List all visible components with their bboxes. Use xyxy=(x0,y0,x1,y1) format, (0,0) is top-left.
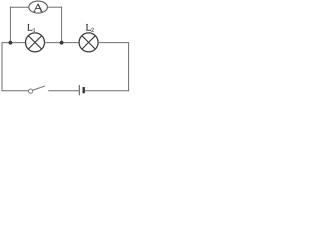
wire: ammeter branch right vertical xyxy=(61,7,63,43)
switch S pivot circle xyxy=(29,89,33,93)
node A junction dot xyxy=(9,41,13,45)
wire: left vertical xyxy=(1,42,3,91)
label L1 xyxy=(28,24,35,31)
wire: right vertical xyxy=(128,42,130,91)
node B junction dot xyxy=(60,41,64,45)
lamp L1 cross xyxy=(28,36,41,49)
label L2 xyxy=(86,24,94,31)
wire: ammeter branch top right horizontal xyxy=(47,6,62,8)
lamp L1 circle xyxy=(26,33,45,52)
wire: bottom right segment xyxy=(85,90,129,92)
lamp L2 cross xyxy=(82,36,95,49)
op: ammeter A1 ellipse xyxy=(29,1,48,13)
battery short plate (-) xyxy=(83,87,85,93)
wire: ammeter branch top left horizontal xyxy=(10,6,29,8)
wire: ammeter branch left vertical xyxy=(9,7,11,43)
label: ammeter letter A xyxy=(33,4,42,12)
wire: main line right segment xyxy=(98,42,129,44)
wire: main line left segment xyxy=(2,42,26,44)
battery long plate (+) xyxy=(78,85,80,95)
switch S lever xyxy=(33,86,45,90)
wire: bottom middle segment xyxy=(48,90,79,92)
lamp L2 circle xyxy=(79,33,98,52)
wire: bottom left segment xyxy=(2,90,29,92)
wire: main line between L1 and L2 xyxy=(45,42,80,44)
